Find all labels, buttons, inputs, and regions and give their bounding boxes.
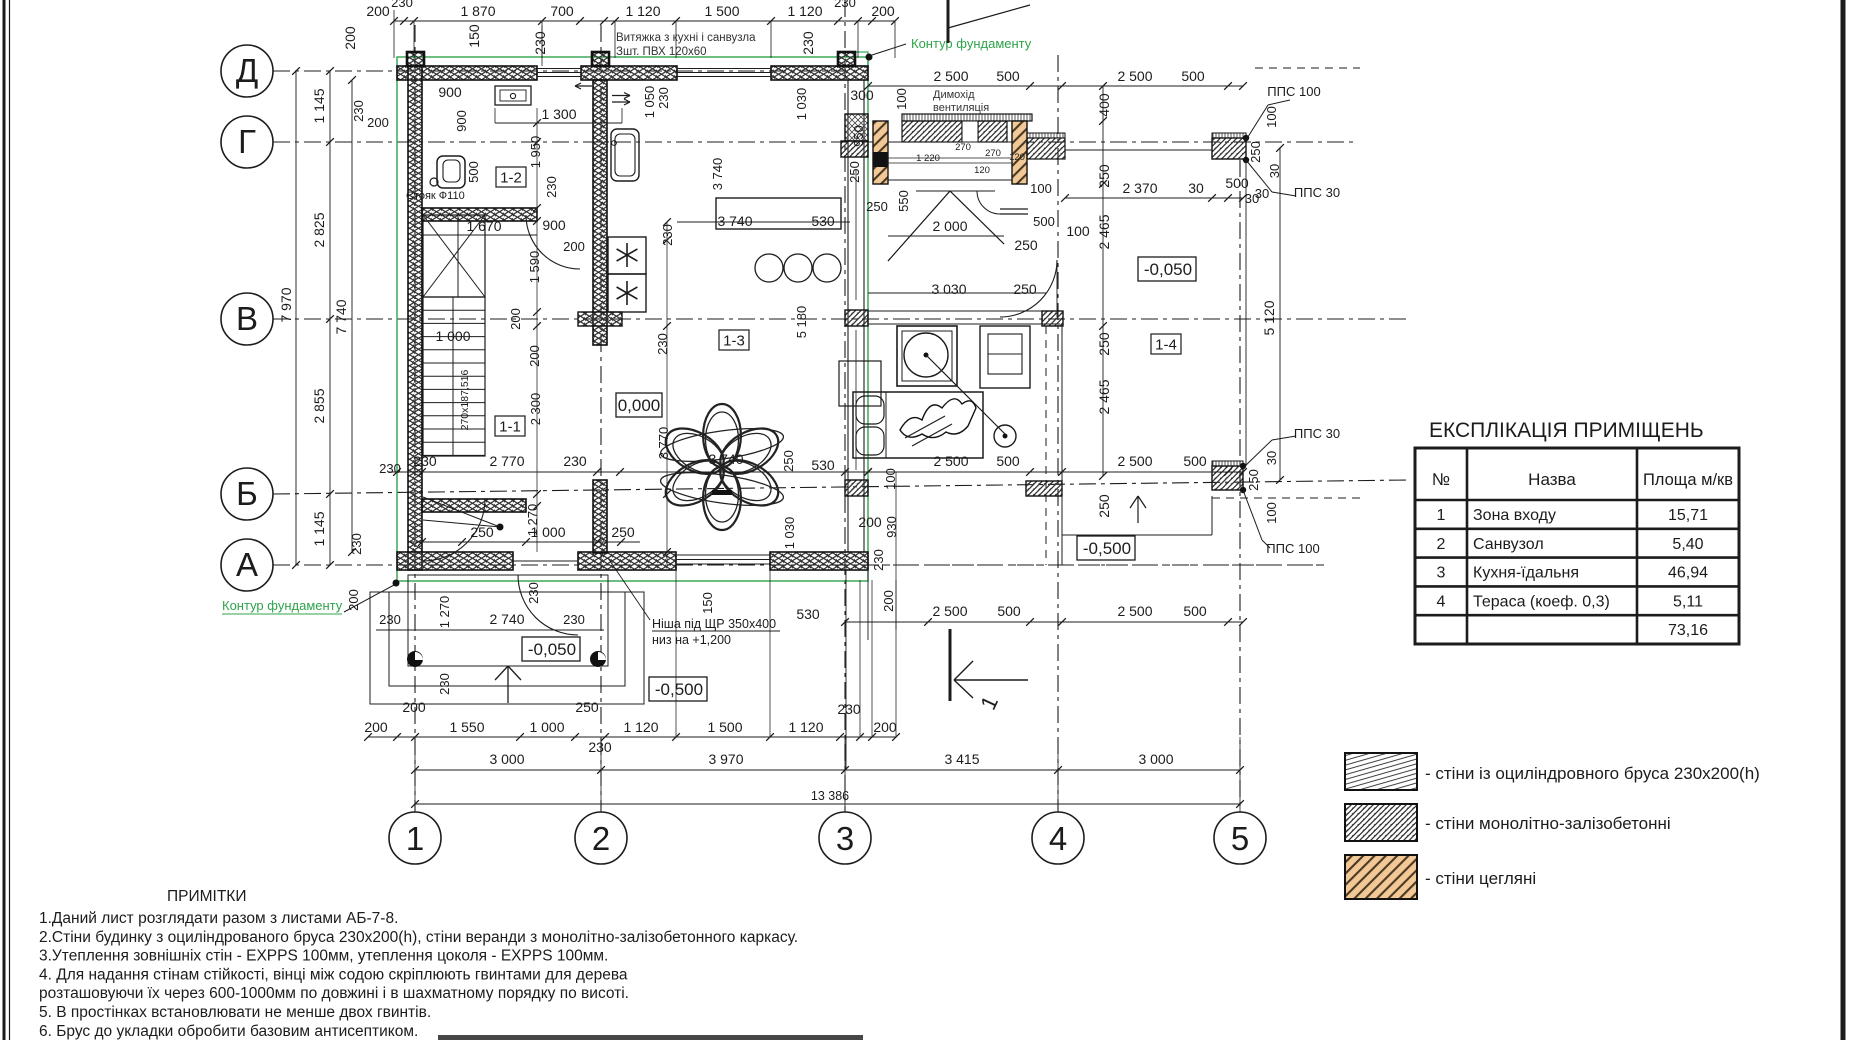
svg-text:270x187,516: 270x187,516 xyxy=(459,369,471,430)
svg-text:4: 4 xyxy=(1437,593,1446,610)
svg-text:Площа м/кв: Площа м/кв xyxy=(1643,471,1733,489)
svg-text:2 465: 2 465 xyxy=(1096,379,1112,414)
svg-text:1 220: 1 220 xyxy=(916,153,940,164)
svg-text:А: А xyxy=(236,546,258,583)
svg-text:низ на +1,200: низ на +1,200 xyxy=(652,633,731,647)
svg-text:Контур фундаменту: Контур фундаменту xyxy=(911,36,1032,51)
svg-text:2 825: 2 825 xyxy=(311,212,327,247)
svg-text:500: 500 xyxy=(1183,603,1207,619)
svg-text:500: 500 xyxy=(1033,214,1055,229)
svg-text:-0,500: -0,500 xyxy=(655,680,703,699)
svg-text:15,71: 15,71 xyxy=(1668,507,1708,524)
svg-text:250: 250 xyxy=(1248,141,1263,163)
svg-text:розташовуючи їх через 600-100: розташовуючи їх через 600-1000мм по довж… xyxy=(39,985,629,1002)
svg-text:230: 230 xyxy=(544,176,559,198)
svg-text:200: 200 xyxy=(858,514,882,530)
svg-text:-0,050: -0,050 xyxy=(528,640,576,659)
svg-text:3 740: 3 740 xyxy=(710,158,725,191)
svg-text:250: 250 xyxy=(611,524,635,540)
svg-text:230: 230 xyxy=(837,701,861,717)
svg-text:230: 230 xyxy=(834,0,856,10)
svg-text:250: 250 xyxy=(847,161,862,183)
svg-text:5 120: 5 120 xyxy=(1261,300,1277,335)
svg-text:400: 400 xyxy=(1096,93,1112,117)
svg-text:2 500: 2 500 xyxy=(932,603,967,619)
svg-text:230: 230 xyxy=(656,87,671,109)
svg-text:Санвузол: Санвузол xyxy=(1473,536,1544,553)
svg-text:230: 230 xyxy=(437,673,452,695)
svg-text:2 500: 2 500 xyxy=(933,68,968,84)
svg-text:1 120: 1 120 xyxy=(623,719,658,735)
svg-text:3: 3 xyxy=(836,820,854,857)
svg-text:250: 250 xyxy=(1096,332,1112,356)
svg-text:3 030: 3 030 xyxy=(931,281,966,297)
svg-text:1 120: 1 120 xyxy=(625,3,660,19)
svg-text:6. Брус до укладки обробити ба: 6. Брус до укладки обробити базовим анти… xyxy=(39,1023,418,1040)
svg-text:230: 230 xyxy=(588,739,612,755)
svg-text:Димохід: Димохід xyxy=(933,89,975,101)
svg-text:Тераса (коеф. 0,3): Тераса (коеф. 0,3) xyxy=(1473,593,1610,610)
svg-text:150: 150 xyxy=(700,592,715,614)
svg-text:1-3: 1-3 xyxy=(723,333,745,350)
svg-text:200: 200 xyxy=(881,590,896,612)
svg-text:1 870: 1 870 xyxy=(460,3,495,19)
svg-text:100: 100 xyxy=(1030,181,1052,196)
svg-text:-0,050: -0,050 xyxy=(1144,260,1192,279)
svg-text:1-2: 1-2 xyxy=(500,170,522,187)
svg-text:100: 100 xyxy=(1066,223,1090,239)
svg-text:1 000: 1 000 xyxy=(435,328,470,344)
svg-text:30: 30 xyxy=(1267,164,1282,178)
svg-text:250: 250 xyxy=(866,199,888,214)
svg-text:3 000: 3 000 xyxy=(489,751,524,767)
svg-text:150: 150 xyxy=(466,24,482,48)
svg-text:ППС 30: ППС 30 xyxy=(1294,185,1340,200)
svg-text:3: 3 xyxy=(1437,565,1446,582)
svg-text:1: 1 xyxy=(1437,507,1446,524)
svg-text:2 500: 2 500 xyxy=(1117,68,1152,84)
svg-text:В: В xyxy=(236,300,258,337)
svg-text:530: 530 xyxy=(811,213,835,229)
svg-text:Назва: Назва xyxy=(1528,470,1576,489)
svg-text:5 180: 5 180 xyxy=(794,306,809,339)
svg-text:1 030: 1 030 xyxy=(794,88,809,121)
svg-text:0,000: 0,000 xyxy=(618,396,661,415)
svg-text:4: 4 xyxy=(1049,820,1067,857)
svg-text:5. В простінках встановлювати: 5. В простінках встановлювати не менше д… xyxy=(39,1004,431,1021)
svg-text:1: 1 xyxy=(406,820,424,857)
svg-text:900: 900 xyxy=(542,217,566,233)
svg-text:Зона входу: Зона входу xyxy=(1473,507,1556,524)
svg-text:900: 900 xyxy=(438,84,462,100)
svg-text:1 145: 1 145 xyxy=(311,88,327,123)
svg-text:2: 2 xyxy=(592,820,610,857)
svg-text:2 500: 2 500 xyxy=(1117,603,1152,619)
svg-text:1 000: 1 000 xyxy=(529,719,564,735)
svg-text:Витяжка з кухні і санвузла: Витяжка з кухні і санвузла xyxy=(616,32,756,44)
svg-text:3.Утеплення зовнішніх стін - E: 3.Утеплення зовнішніх стін - EXPPS 100мм… xyxy=(39,948,608,965)
svg-text:1.Даний лист розглядати разом: 1.Даний лист розглядати разом з листами … xyxy=(39,910,398,927)
svg-text:2 300: 2 300 xyxy=(528,393,543,426)
svg-text:- стіни цегляні: - стіни цегляні xyxy=(1425,869,1536,888)
svg-text:Кухня-їдальня: Кухня-їдальня xyxy=(1473,565,1579,582)
svg-text:2.Стіни будинку з оциліндрован: 2.Стіни будинку з оциліндрованого бруса … xyxy=(39,929,798,946)
svg-text:250: 250 xyxy=(1014,237,1038,253)
svg-text:550: 550 xyxy=(896,190,911,212)
svg-text:530: 530 xyxy=(811,457,835,473)
svg-text:1 500: 1 500 xyxy=(704,3,739,19)
svg-text:1 050: 1 050 xyxy=(642,86,657,119)
svg-text:250: 250 xyxy=(1096,494,1112,518)
svg-text:930: 930 xyxy=(884,516,899,538)
svg-text:Ніша під ЩР 350x400: Ніша під ЩР 350x400 xyxy=(652,617,776,631)
svg-text:1-4: 1-4 xyxy=(1155,337,1177,354)
svg-text:ППС 30: ППС 30 xyxy=(1294,426,1340,441)
svg-text:250: 250 xyxy=(1096,164,1112,188)
svg-text:30: 30 xyxy=(1264,451,1279,465)
svg-text:500: 500 xyxy=(466,161,481,183)
svg-text:500: 500 xyxy=(997,603,1021,619)
svg-text:230: 230 xyxy=(532,31,548,55)
svg-text:Г: Г xyxy=(238,123,256,160)
svg-text:1 670: 1 670 xyxy=(466,218,501,234)
svg-text:230: 230 xyxy=(349,533,364,555)
svg-text:250: 250 xyxy=(1246,469,1261,491)
svg-text:1 550: 1 550 xyxy=(449,719,484,735)
svg-text:270: 270 xyxy=(955,142,971,153)
svg-text:250: 250 xyxy=(781,450,796,472)
svg-text:250: 250 xyxy=(575,699,599,715)
svg-text:7 740: 7 740 xyxy=(333,299,349,334)
svg-text:2: 2 xyxy=(1437,536,1446,553)
svg-text:200: 200 xyxy=(364,719,388,735)
svg-text:- стіни із оциліндровного брус: - стіни із оциліндровного бруса 230x200(… xyxy=(1425,764,1760,783)
svg-text:100: 100 xyxy=(894,88,909,110)
svg-text:2 740: 2 740 xyxy=(489,611,524,627)
svg-text:230: 230 xyxy=(391,0,413,10)
svg-text:230: 230 xyxy=(660,224,675,246)
svg-text:5,11: 5,11 xyxy=(1673,593,1703,610)
svg-text:1 120: 1 120 xyxy=(788,719,823,735)
svg-text:ЕКСПЛІКАЦІЯ ПРИМІЩЕНЬ: ЕКСПЛІКАЦІЯ ПРИМІЩЕНЬ xyxy=(1429,419,1704,442)
svg-text:30: 30 xyxy=(1188,180,1204,196)
svg-text:200: 200 xyxy=(563,239,585,254)
svg-text:200: 200 xyxy=(366,3,390,19)
svg-text:700: 700 xyxy=(550,3,574,19)
svg-text:73,16: 73,16 xyxy=(1668,622,1708,639)
svg-text:1 030: 1 030 xyxy=(782,517,797,550)
svg-text:500: 500 xyxy=(996,68,1020,84)
svg-text:200: 200 xyxy=(346,589,361,611)
svg-text:1 300: 1 300 xyxy=(541,106,576,122)
svg-text:2 465: 2 465 xyxy=(1096,214,1112,249)
svg-text:230: 230 xyxy=(563,453,587,469)
svg-text:100: 100 xyxy=(1264,106,1279,128)
svg-text:7 970: 7 970 xyxy=(278,287,294,322)
svg-text:3 000: 3 000 xyxy=(1138,751,1173,767)
svg-text:530: 530 xyxy=(796,606,820,622)
svg-text:1 590: 1 590 xyxy=(527,251,542,284)
svg-text:1 950: 1 950 xyxy=(528,136,543,169)
svg-text:ПРИМІТКИ: ПРИМІТКИ xyxy=(167,888,246,905)
svg-text:200: 200 xyxy=(402,699,426,715)
svg-text:270: 270 xyxy=(985,148,1001,159)
svg-text:3 970: 3 970 xyxy=(708,751,743,767)
svg-text:Зшт. ПВХ 120x60: Зшт. ПВХ 120x60 xyxy=(616,46,707,58)
svg-text:Контур фундаменту: Контур фундаменту xyxy=(222,598,343,613)
svg-text:Стояк Ф110: Стояк Ф110 xyxy=(406,190,465,202)
svg-text:5: 5 xyxy=(1231,820,1249,857)
svg-text:2 500: 2 500 xyxy=(1117,453,1152,469)
svg-text:3 770: 3 770 xyxy=(656,427,671,460)
svg-text:1 000: 1 000 xyxy=(530,524,565,540)
svg-text:- стіни монолітно-залізобетонн: - стіни монолітно-залізобетонні xyxy=(1425,814,1671,833)
svg-text:2 370: 2 370 xyxy=(1122,180,1157,196)
svg-text:2 500: 2 500 xyxy=(933,453,968,469)
svg-text:900: 900 xyxy=(454,110,469,132)
svg-text:200: 200 xyxy=(871,3,895,19)
svg-text:230: 230 xyxy=(379,461,401,476)
svg-text:2 855: 2 855 xyxy=(311,388,327,423)
svg-text:230: 230 xyxy=(413,453,437,469)
svg-text:1 500: 1 500 xyxy=(707,719,742,735)
svg-text:230: 230 xyxy=(351,100,366,122)
svg-text:200: 200 xyxy=(873,719,897,735)
svg-text:3 415: 3 415 xyxy=(944,751,979,767)
svg-text:230: 230 xyxy=(871,549,886,571)
svg-text:200: 200 xyxy=(342,26,358,50)
svg-text:230: 230 xyxy=(379,612,401,627)
svg-text:вентиляція: вентиляція xyxy=(933,102,989,114)
svg-text:2 770: 2 770 xyxy=(489,453,524,469)
svg-text:300: 300 xyxy=(850,87,874,103)
svg-text:-0,500: -0,500 xyxy=(1083,539,1131,558)
svg-text:№: № xyxy=(1432,470,1450,489)
svg-text:120: 120 xyxy=(1009,152,1025,163)
svg-text:1 145: 1 145 xyxy=(311,511,327,546)
svg-text:1-1: 1-1 xyxy=(499,419,521,436)
svg-text:100: 100 xyxy=(1264,502,1279,524)
svg-text:Д: Д xyxy=(236,52,258,89)
svg-text:ППС 100: ППС 100 xyxy=(1267,84,1320,99)
svg-text:230: 230 xyxy=(800,31,816,55)
svg-text:30: 30 xyxy=(1255,186,1269,201)
svg-text:3 740: 3 740 xyxy=(708,451,743,467)
svg-text:200: 200 xyxy=(367,115,389,130)
svg-text:250: 250 xyxy=(470,524,494,540)
svg-text:200: 200 xyxy=(508,308,523,330)
svg-text:3 740: 3 740 xyxy=(717,213,752,229)
svg-text:500: 500 xyxy=(1181,68,1205,84)
svg-text:4. Для надання стінам стійкост: 4. Для надання стінам стійкості, вінці м… xyxy=(39,966,628,983)
svg-text:230: 230 xyxy=(526,582,541,604)
svg-text:230: 230 xyxy=(655,333,670,355)
svg-text:500: 500 xyxy=(1183,453,1207,469)
svg-text:500: 500 xyxy=(996,453,1020,469)
svg-text:1 270: 1 270 xyxy=(437,596,452,629)
svg-text:120: 120 xyxy=(974,165,990,176)
svg-text:1 120: 1 120 xyxy=(787,3,822,19)
svg-text:46,94: 46,94 xyxy=(1668,565,1708,582)
svg-text:13 386: 13 386 xyxy=(811,789,849,803)
svg-text:ППС 100: ППС 100 xyxy=(1266,541,1319,556)
svg-text:200: 200 xyxy=(527,345,542,367)
svg-text:2 000: 2 000 xyxy=(932,218,967,234)
svg-text:Б: Б xyxy=(236,475,258,512)
svg-text:500: 500 xyxy=(1225,175,1249,191)
svg-text:5,40: 5,40 xyxy=(1672,536,1703,553)
svg-text:230: 230 xyxy=(563,612,585,627)
svg-text:950: 950 xyxy=(851,125,866,147)
svg-text:250: 250 xyxy=(1013,281,1037,297)
